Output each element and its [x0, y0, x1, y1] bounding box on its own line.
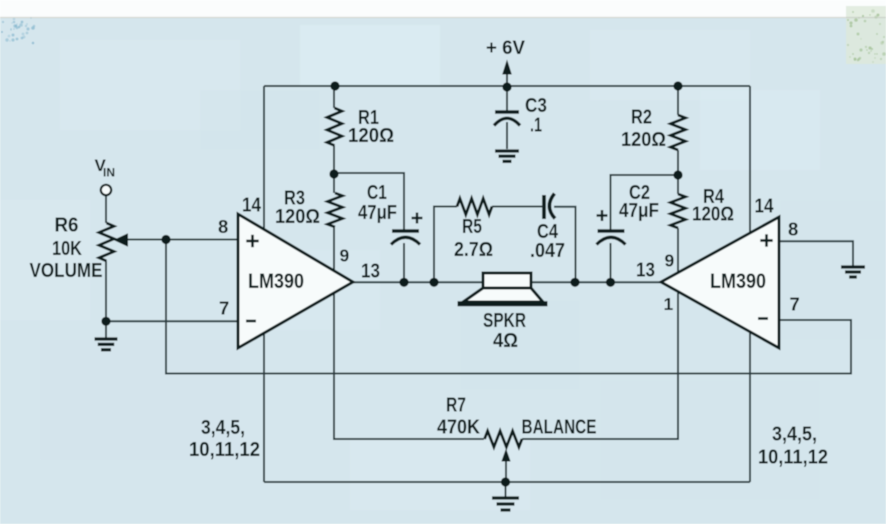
svg-text:C1: C1 [367, 182, 387, 204]
svg-text:120Ω: 120Ω [275, 206, 320, 228]
svg-text:VOLUME: VOLUME [30, 260, 103, 282]
svg-text:IN: IN [103, 168, 115, 180]
svg-text:+ 6V: + 6V [486, 38, 525, 59]
svg-text:120Ω: 120Ω [348, 125, 394, 147]
svg-text:LM390: LM390 [248, 270, 304, 293]
svg-text:R7: R7 [446, 395, 466, 417]
svg-text:1: 1 [664, 294, 674, 314]
svg-text:R2: R2 [631, 107, 652, 129]
svg-text:9: 9 [340, 246, 350, 266]
svg-text:7: 7 [219, 298, 229, 319]
svg-text:.1: .1 [530, 115, 542, 137]
svg-text:7: 7 [790, 294, 800, 315]
svg-text:47μF: 47μF [619, 200, 659, 222]
svg-text:120Ω: 120Ω [692, 204, 734, 226]
svg-text:13: 13 [636, 260, 655, 282]
svg-text:10,11,12: 10,11,12 [758, 447, 828, 469]
svg-text:47μF: 47μF [358, 202, 397, 224]
svg-text:10K: 10K [52, 238, 82, 260]
svg-text:.047: .047 [530, 240, 565, 262]
svg-text:2.7Ω: 2.7Ω [454, 239, 493, 261]
svg-text:10,11,12: 10,11,12 [189, 439, 260, 461]
svg-text:13: 13 [361, 261, 380, 283]
svg-text:9: 9 [665, 251, 675, 271]
svg-text:3,4,5,: 3,4,5, [201, 417, 245, 439]
svg-text:470K: 470K [437, 417, 481, 439]
svg-text:R6: R6 [55, 215, 79, 237]
svg-text:BALANCE: BALANCE [522, 417, 597, 439]
svg-text:120Ω: 120Ω [621, 129, 666, 151]
svg-text:8: 8 [788, 219, 798, 240]
svg-text:14: 14 [755, 196, 775, 218]
svg-text:4Ω: 4Ω [493, 330, 518, 352]
svg-text:SPKR: SPKR [483, 310, 526, 332]
svg-text:14: 14 [242, 195, 262, 217]
svg-text:R5: R5 [462, 216, 482, 238]
svg-text:8: 8 [218, 216, 228, 237]
svg-text:LM390: LM390 [710, 270, 766, 293]
svg-text:3,4,5,: 3,4,5, [772, 424, 817, 446]
